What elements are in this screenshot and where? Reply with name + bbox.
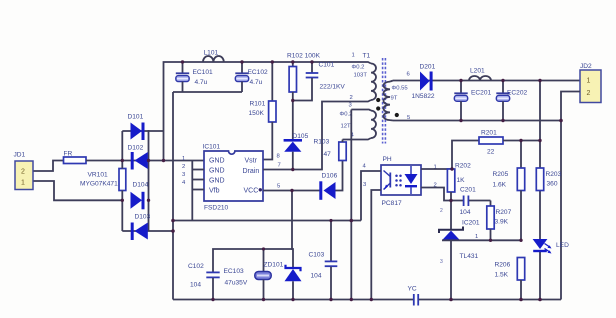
- svg-text:7: 7: [278, 163, 281, 169]
- svg-text:R102 100K: R102 100K: [287, 53, 321, 60]
- diode D102: [128, 145, 148, 170]
- svg-text:LED: LED: [556, 242, 569, 249]
- wire TL431 ref: [442, 239, 521, 241]
- resistor R101: [249, 62, 277, 160]
- wire bridge left column: [121, 131, 123, 231]
- svg-text:3: 3: [440, 259, 443, 265]
- wire Vout drop to R203 and LED: [539, 81, 541, 300]
- inductor L201: [469, 68, 491, 81]
- PC817 pin number 2: [434, 183, 437, 189]
- svg-text:L101: L101: [204, 50, 219, 57]
- svg-text:47u35V: 47u35V: [225, 280, 248, 287]
- resistor R202: [447, 163, 471, 201]
- svg-text:D102: D102: [128, 145, 144, 152]
- diode D104: [131, 182, 149, 210]
- svg-text:Drain: Drain: [243, 168, 260, 175]
- capacitor EC101: [176, 62, 213, 92]
- inductor L101: [203, 50, 224, 63]
- wire PC817 pin2 to feedback node: [421, 188, 463, 201]
- svg-text:2: 2: [440, 208, 443, 214]
- svg-text:EC201: EC201: [471, 90, 491, 97]
- wire bottom rail primary side: [173, 299, 413, 301]
- diode D101: [128, 114, 145, 141]
- wire VCC drop to cap rail: [292, 191, 293, 250]
- transformer T1 core: [383, 58, 386, 144]
- wire bottom rail secondary side: [419, 299, 561, 301]
- svg-text:1K: 1K: [457, 177, 466, 184]
- svg-text:1: 1: [475, 234, 478, 240]
- svg-text:104: 104: [460, 209, 471, 216]
- svg-text:D103: D103: [135, 214, 151, 221]
- wire primary ground bus x173: [172, 92, 174, 300]
- IC U1 IC101 FSD210: [203, 144, 264, 212]
- IC101 pin numbers 8 7 5: [277, 154, 282, 190]
- svg-text:C103: C103: [309, 252, 325, 259]
- svg-text:IC101: IC101: [203, 144, 221, 151]
- svg-text:103T: 103T: [354, 73, 368, 79]
- svg-text:VCC: VCC: [244, 187, 259, 194]
- svg-text:1.5K: 1.5K: [495, 272, 509, 279]
- varistor VR101: [80, 169, 126, 191]
- diode D103: [131, 214, 151, 241]
- svg-text:FSD210: FSD210: [204, 205, 229, 212]
- wire FR to D102 cathode (AC1 row): [86, 160, 204, 162]
- wire secondary return rail pin5: [393, 120, 561, 122]
- svg-text:2: 2: [350, 95, 353, 101]
- wire T1 pin3 to primary ground rail: [350, 110, 352, 300]
- svg-text:MYG07K471: MYG07K471: [80, 181, 118, 188]
- svg-text:TL431: TL431: [460, 253, 479, 260]
- svg-text:GND: GND: [209, 167, 225, 174]
- svg-text:R101: R101: [250, 101, 266, 108]
- PC817 pin number 1: [434, 165, 437, 171]
- svg-text:R205: R205: [493, 171, 509, 178]
- svg-text:JD2: JD2: [580, 63, 592, 70]
- svg-text:3.9K: 3.9K: [495, 219, 509, 226]
- svg-text:C102: C102: [188, 263, 204, 270]
- transformer T1 primary winding pins 1-2: [350, 53, 381, 103]
- svg-text:2: 2: [587, 90, 591, 97]
- connector JD1: [14, 152, 34, 190]
- optocoupler PH PC817: [381, 156, 421, 207]
- svg-text:1: 1: [182, 156, 185, 162]
- svg-text:VR101: VR101: [88, 172, 108, 179]
- LED indicator: [533, 239, 569, 254]
- resistor R205: [493, 141, 525, 241]
- svg-text:EC103: EC103: [224, 268, 244, 275]
- svg-text:4.7u: 4.7u: [195, 79, 208, 86]
- fuse FR: [64, 151, 87, 164]
- diode D105: [284, 133, 309, 170]
- wire IC101 GND pin bracket: [192, 161, 204, 221]
- svg-text:ZD101: ZD101: [264, 262, 284, 269]
- svg-text:1: 1: [587, 78, 591, 85]
- zener ZD101: [264, 262, 302, 300]
- resistor R207: [487, 201, 512, 241]
- capacitor EC103: [224, 249, 272, 300]
- wire D101 anode row: [122, 130, 164, 132]
- svg-text:R203: R203: [546, 171, 562, 178]
- resistor R103: [314, 139, 347, 161]
- svg-text:47: 47: [324, 151, 332, 158]
- capacitor EC201: [454, 81, 491, 121]
- junction dots primary: [121, 60, 373, 301]
- PC817 pin number 3: [363, 182, 367, 188]
- svg-text:D106: D106: [322, 173, 338, 180]
- svg-text:R207: R207: [496, 209, 512, 216]
- resistor R102: [287, 53, 321, 140]
- svg-text:R103: R103: [314, 139, 330, 146]
- svg-text:Φ0.2: Φ0.2: [352, 65, 365, 71]
- svg-text:PH: PH: [383, 156, 392, 163]
- svg-text:IC201: IC201: [462, 220, 480, 227]
- svg-text:C201: C201: [460, 187, 476, 194]
- svg-text:D105: D105: [293, 133, 309, 140]
- svg-text:EC101: EC101: [193, 69, 213, 76]
- transformer T1 secondary winding pins 6-5: [384, 72, 411, 122]
- svg-text:1.6K: 1.6K: [493, 182, 507, 189]
- svg-text:1N5822: 1N5822: [412, 93, 435, 100]
- wire JD2 pin2 down to secondary ground: [561, 92, 580, 300]
- capacitor EC102: [235, 62, 268, 92]
- wire VCC net: [263, 190, 320, 192]
- diode D201 1N5822: [412, 64, 436, 101]
- wire PC817 pin3 down to primary ground rail: [371, 190, 381, 300]
- svg-text:D201: D201: [420, 64, 436, 71]
- svg-text:Vstr: Vstr: [245, 157, 258, 164]
- svg-text:L201: L201: [470, 68, 485, 75]
- transformer T1 aux winding pins 3-4: [340, 103, 381, 140]
- wire secondary output rail pin6: [393, 80, 580, 82]
- svg-text:150K: 150K: [249, 110, 265, 117]
- svg-text:22: 22: [487, 149, 495, 156]
- junction dots secondary: [449, 79, 563, 302]
- svg-text:222/1KV: 222/1KV: [320, 84, 346, 91]
- capacitor C102: [188, 263, 220, 300]
- svg-text:2: 2: [21, 169, 25, 176]
- svg-text:R206: R206: [495, 262, 511, 269]
- svg-text:R202: R202: [455, 163, 471, 170]
- svg-text:360: 360: [547, 181, 558, 188]
- svg-text:1: 1: [352, 53, 355, 59]
- capacitor C201: [460, 187, 491, 217]
- capacitor YC: [408, 286, 419, 306]
- svg-text:GND: GND: [209, 157, 225, 164]
- wire PC817 pin4 to feedback ground wire: [361, 171, 381, 221]
- svg-text:JD1: JD1: [14, 152, 26, 159]
- svg-text:C101: C101: [319, 62, 335, 69]
- svg-text:4.7u: 4.7u: [250, 79, 263, 86]
- wire bridge right column: [148, 130, 150, 231]
- IC101 pin numbers 1 2 3 4: [182, 156, 186, 186]
- svg-text:104: 104: [311, 273, 322, 280]
- connector JD2: [580, 63, 601, 103]
- wire JD1 pin1 to AC2 row: [34, 181, 123, 200]
- capacitor C103: [309, 221, 338, 300]
- resistor R203: [536, 168, 561, 191]
- wire JD1 pin2 to FR: [34, 161, 64, 172]
- svg-text:1: 1: [21, 180, 25, 187]
- wire top rail: [164, 62, 372, 161]
- svg-text:D104: D104: [133, 182, 149, 189]
- svg-text:EC102: EC102: [248, 69, 268, 76]
- resistor R201: [452, 130, 540, 170]
- svg-text:YC: YC: [408, 286, 417, 293]
- svg-text:T1: T1: [363, 53, 371, 60]
- wire D103 anode row: [122, 230, 173, 232]
- svg-text:Φ0.55: Φ0.55: [392, 86, 409, 92]
- wire cap top rail y249: [213, 249, 293, 272]
- svg-text:12T: 12T: [341, 124, 352, 130]
- capacitor C101: [293, 62, 346, 101]
- capacitor EC202: [496, 81, 527, 121]
- svg-text:EC202: EC202: [507, 90, 527, 97]
- svg-text:PC817: PC817: [382, 200, 402, 207]
- svg-text:D101: D101: [128, 114, 144, 121]
- svg-text:R201: R201: [481, 130, 497, 137]
- diode D106: [319, 161, 342, 200]
- svg-text:9T: 9T: [391, 96, 398, 102]
- wire EC101 EC102 negative bus: [173, 91, 242, 93]
- svg-text:GND: GND: [209, 177, 225, 184]
- svg-text:2: 2: [182, 164, 185, 170]
- wire drain net: [263, 100, 371, 170]
- wire feedback ground wire y220: [173, 220, 361, 222]
- shunt regulator IC201 TL431: [439, 201, 480, 300]
- PC817 pin number 4: [363, 164, 367, 170]
- svg-text:104: 104: [190, 282, 201, 289]
- svg-text:Vfb: Vfb: [209, 187, 220, 194]
- wire PC817 pin1 to R202 top: [421, 168, 452, 170]
- resistor R206: [495, 258, 525, 300]
